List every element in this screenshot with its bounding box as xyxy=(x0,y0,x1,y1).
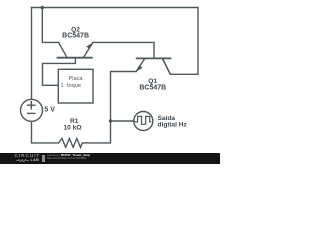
touch plate box xyxy=(58,69,93,103)
wire output branch xyxy=(111,120,134,122)
transistor Q2 xyxy=(57,42,93,57)
svg-text:Placa: Placa xyxy=(69,76,84,82)
wire Q2 collector branch xyxy=(42,8,58,43)
square wave icon xyxy=(134,116,151,124)
Q1 emitter arrow xyxy=(136,65,143,71)
footer bar xyxy=(0,153,220,164)
wire Q1 collector to right rail xyxy=(163,58,199,74)
svg-text:digital Hz: digital Hz xyxy=(158,122,188,129)
svg-text:10 kΩ: 10 kΩ xyxy=(63,125,82,132)
junction dot top xyxy=(41,6,45,10)
footer text line 1 xyxy=(47,154,90,157)
wire right rail xyxy=(197,8,199,75)
wire top rail xyxy=(32,7,199,9)
wire V source bottom to resistor xyxy=(32,121,59,142)
logo separator xyxy=(42,155,45,162)
footer text line 2 xyxy=(47,157,86,160)
Q2 emitter arrow xyxy=(86,43,93,49)
svg-text:toque: toque xyxy=(67,83,81,89)
CircuitLab logo LAB row xyxy=(16,159,42,162)
svg-text:1: 1 xyxy=(61,83,64,89)
CircuitLab logo CIRCUIT xyxy=(15,155,41,159)
svg-text:BC547B: BC547B xyxy=(62,33,89,40)
output probe circle xyxy=(134,112,153,131)
transistor Q1 xyxy=(136,58,172,74)
resistor R1 zigzag xyxy=(58,139,82,148)
svg-text:BC547B: BC547B xyxy=(139,85,166,92)
wire Q2 base to plate xyxy=(43,58,76,85)
wire left rail xyxy=(31,8,33,100)
svg-text:5 V: 5 V xyxy=(44,107,55,114)
wire Q2 emitter to Q1 base xyxy=(93,42,154,58)
junction dot right xyxy=(109,119,113,123)
voltage source V1 xyxy=(21,99,43,121)
wire resistor to right vertical xyxy=(82,72,136,143)
